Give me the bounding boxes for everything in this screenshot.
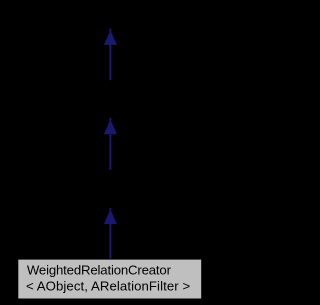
inheritance arrow (bottom) xyxy=(104,208,117,259)
svg-text:WeightedRelationCreator: WeightedRelationCreator xyxy=(27,262,172,277)
inheritance arrow (middle) xyxy=(104,118,117,170)
node box fill xyxy=(18,260,201,299)
node box border xyxy=(17,259,202,300)
svg-text:< AObject, ARelationFilter >: < AObject, ARelationFilter > xyxy=(26,278,190,293)
inheritance arrow (top) xyxy=(104,29,117,80)
